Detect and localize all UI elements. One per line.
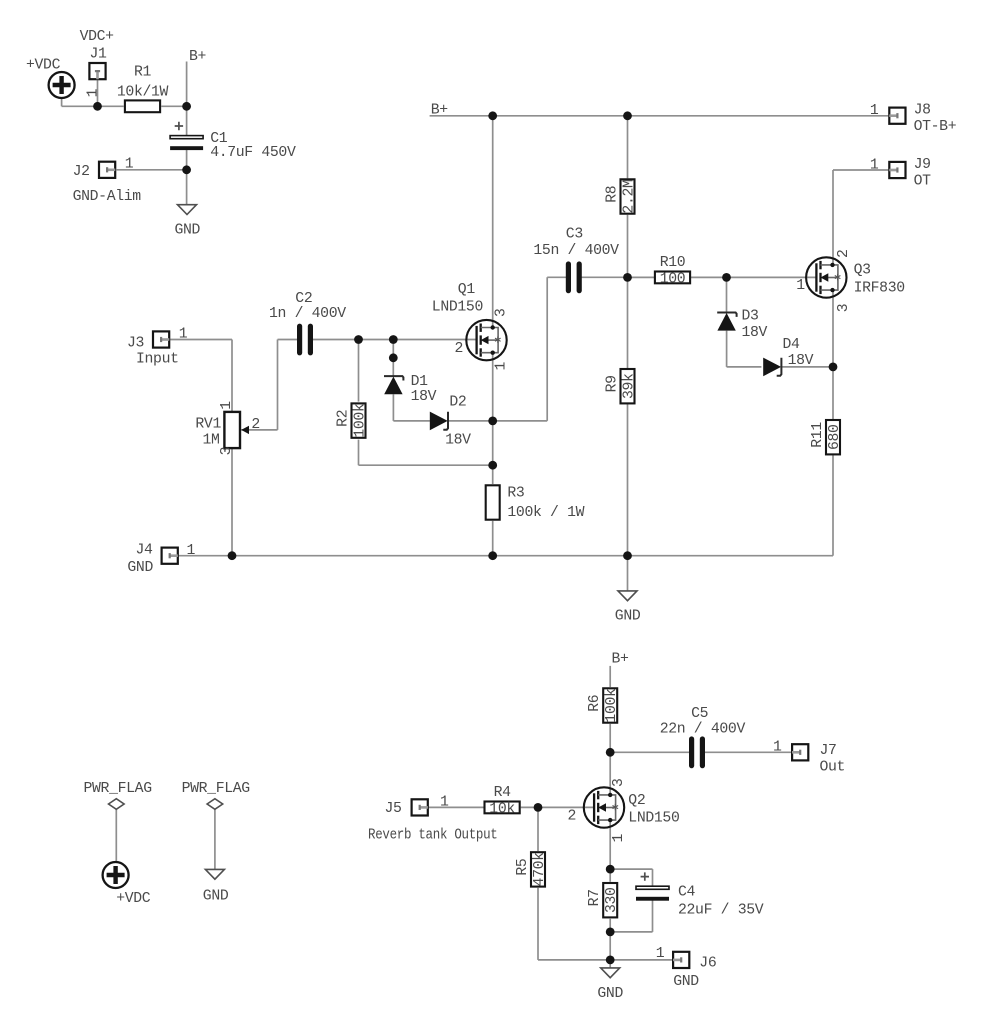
svg-text:1: 1 [125,157,134,173]
connector J2 [99,162,115,178]
svg-text:RV1: RV1 [195,416,221,432]
svg-text:Out: Out [820,760,846,776]
svg-text:OT-B+: OT-B+ [914,119,957,135]
svg-text:4.7uF 450V: 4.7uF 450V [210,145,296,161]
junction R3 / GND bus [488,551,497,560]
svg-text:+VDC: +VDC [116,891,151,907]
svg-text:OT: OT [914,173,932,189]
svg-text:22uF / 35V: 22uF / 35V [678,903,764,919]
junction D4 / Q3 source / R11 [829,363,838,372]
zener diode D4 [763,358,781,377]
wire R5 bottom down [537,888,539,960]
svg-text:C2: C2 [295,291,312,307]
wire RV1 pin3 to GND bus [231,448,233,556]
connector J1 [89,63,105,79]
svg-text:Q1: Q1 [458,282,476,298]
resistor R3 [486,485,500,519]
resistor R1 [125,100,160,112]
svg-text:B+: B+ [431,103,449,119]
wire D1 anode down [392,394,394,421]
wire C3 right to node [581,276,627,278]
junction B+ / R8 [623,111,632,120]
svg-text:470k: 470k [532,852,548,887]
svg-text:Input: Input [136,352,179,368]
svg-text:D1: D1 [411,374,429,390]
wire B+ label stub [186,62,188,107]
wire corner to RV1 pin1 [231,340,233,413]
svg-text:3: 3 [219,447,235,456]
zener diode D3 [717,313,736,331]
connector J9 [889,162,905,178]
wire Q2 source to node [609,820,611,869]
wire C1 bottom to node [186,150,188,170]
wire to C2 left [278,339,298,341]
wire node to Q1 gate [393,339,477,341]
svg-text:15n / 400V: 15n / 400V [533,243,619,259]
svg-text:1: 1 [440,795,449,811]
junction R7 / C4 bottom [606,928,615,937]
svg-text:18V: 18V [445,433,471,449]
svg-text:3: 3 [611,778,627,787]
svg-text:1: 1 [219,401,235,410]
svg-text:1: 1 [493,362,509,371]
svg-text:100k: 100k [604,688,620,723]
wire R11 bottom down [832,456,834,556]
junction D1 branch [389,353,398,362]
connector J3 [153,331,169,347]
transistor Q1 LND150 [466,320,506,360]
svg-text:100k: 100k [352,403,368,438]
wire J2 to node [117,169,187,171]
svg-text:GND: GND [127,560,153,576]
potentiometer RV1 [224,412,249,448]
svg-text:1: 1 [773,740,782,756]
connector J6 [673,952,689,968]
power symbol +VDC [49,72,75,98]
wire J5 to R4 left [429,806,484,808]
capacitor C3 [568,264,579,291]
zener diode D1 [384,376,403,394]
resistor R4 [485,802,520,814]
svg-text:1: 1 [656,946,665,962]
resistor R10 [655,272,690,284]
svg-text:2: 2 [251,417,260,433]
svg-text:IRF830: IRF830 [854,281,905,297]
svg-text:1: 1 [187,543,196,559]
wire node down to D1 cathode [392,340,394,377]
svg-text:1: 1 [179,327,188,343]
wire node right to corner [493,420,548,422]
transistor Q3 IRF830 [806,257,846,297]
svg-text:1n / 400V: 1n / 400V [269,306,346,322]
svg-text:330: 330 [604,887,620,913]
power flag diamond 2 [207,799,223,810]
wire B+ bus to J8 [430,115,889,117]
power symbol GND pwr-flag [205,869,224,879]
power flag diamond 1 [109,799,125,810]
svg-text:J8: J8 [914,102,931,118]
svg-text:Reverb tank Output: Reverb tank Output [368,828,498,844]
junction R8 / R9 / C3 / R10 [623,273,632,282]
wire node to R5 top [537,807,539,851]
svg-text:R1: R1 [134,65,152,81]
svg-text:GND: GND [597,986,623,1002]
svg-text:GND-Alim: GND-Alim [73,189,142,205]
wire C4 to node [610,931,652,933]
wire +VDC horizontal [62,105,98,107]
svg-text:GND: GND [175,223,201,239]
svg-text:D2: D2 [449,395,466,411]
junction R4 / R5 / Q2 gate [534,803,543,812]
svg-text:680: 680 [827,424,843,450]
wire node to node [492,421,494,465]
svg-text:B+: B+ [612,652,630,668]
wire D1 to D2 anode [393,420,430,422]
junction B+ / Q1 drain [488,111,497,120]
svg-text:R3: R3 [507,485,524,501]
junction R10 / D3 / Q3 gate [722,273,731,282]
wire R1 right to node B+ [161,105,186,107]
wire R2 to node below Q1 [359,464,493,466]
junction Q2 source / R7 / C4 [606,865,615,874]
resistor R5 [531,852,545,886]
svg-text:J1: J1 [90,47,108,63]
wire R7 bottom to node [609,919,611,932]
svg-text:GND: GND [673,974,699,990]
svg-text:PWR_FLAG: PWR_FLAG [182,781,250,797]
wire D4 cathode to node [781,366,833,368]
wire GND node to J6 [610,959,672,961]
wire node to D3 cathode [726,277,728,312]
svg-text:D3: D3 [742,309,759,325]
wire to C3 left [547,276,566,278]
svg-text:10k: 10k [489,801,515,817]
junction R2 / R3 [488,461,497,470]
junction D2 / Q1 source [488,417,497,426]
resistor R8 [621,179,635,213]
svg-text:2: 2 [568,809,577,825]
svg-text:LND150: LND150 [628,811,679,827]
connector J7 [792,744,808,760]
wire R2 bottom down [358,440,360,466]
wire B+ to Q1 drain [492,116,494,328]
capacitor C2 [300,326,311,353]
svg-text:R9: R9 [604,375,620,392]
capacitor C5 [692,739,703,766]
svg-text:2: 2 [836,249,852,258]
svg-text:1: 1 [611,834,627,843]
svg-text:J5: J5 [385,801,402,817]
wire R10 right to node [691,276,727,278]
wire node to Q3 gate [727,276,817,278]
svg-text:GND: GND [615,608,641,624]
wire R8 bottom to node [627,215,629,278]
wire node to GND node [609,932,611,960]
wire PWR_FLAG to +VDC [115,809,117,862]
junction RV1 / GND bus [228,551,237,560]
wire GND bus to GND symbol [627,556,629,591]
wire node to R3 top [492,465,494,484]
wire corner to C4 top [652,869,654,886]
resistor R11 [826,420,840,454]
svg-text:J6: J6 [699,956,716,972]
wire node to Q2 drain [609,752,611,795]
svg-text:10k/1W: 10k/1W [117,85,169,101]
wire Q1 source down [492,353,494,421]
svg-text:2.2M: 2.2M [621,179,637,213]
svg-text:100k / 1W: 100k / 1W [507,505,584,521]
svg-text:18V: 18V [788,353,814,369]
svg-text:C5: C5 [691,706,708,722]
svg-text:R10: R10 [660,255,686,271]
wire C4 bottom down [652,901,654,932]
wire GND bus [179,555,628,557]
wire B+ to R8 top [627,116,629,179]
wire J9 down to Q3 drain [832,170,834,265]
svg-text:J9: J9 [914,157,931,173]
wire node to R7 top [609,869,611,882]
wire D3 to D4 anode [727,366,762,368]
wire J1 pin 1 down [97,80,99,106]
transistor Q2 LND150 [584,787,624,827]
wire node to R1 left [98,105,124,107]
wire B+ to R6 top [609,666,611,687]
svg-text:J3: J3 [127,335,144,351]
svg-text:VDC+: VDC+ [80,29,115,45]
junction gate net / D1 [389,335,398,344]
svg-text:GND: GND [203,888,229,904]
capacitor C4 [636,872,669,900]
wire D3 anode down [726,331,728,367]
svg-text:J7: J7 [820,743,837,759]
wire wiper up [277,340,279,430]
wire R9 bottom to GND bus [627,404,629,556]
wire R5 to GND node [538,959,610,961]
svg-text:1: 1 [870,103,879,119]
power symbol +VDC bottom [103,862,129,888]
junction R9 / GND bus [623,551,632,560]
svg-text:D4: D4 [783,337,801,353]
zener diode D2 [430,412,448,431]
svg-text:18V: 18V [742,325,768,341]
wire R11 to GND bus [628,555,834,557]
resistor R7 [603,883,617,917]
svg-text:+VDC: +VDC [26,58,61,74]
svg-text:1: 1 [86,88,102,97]
capacitor C1 [170,122,203,150]
junction +VDC / J1 / R1 [93,102,102,111]
svg-text:PWR_FLAG: PWR_FLAG [84,781,152,797]
wire +VDC to node [61,98,63,107]
wire R6 bottom to node [609,724,611,752]
resistor R2 [352,403,366,437]
svg-text:3: 3 [836,304,852,313]
junction R6 / C5 / Q2 drain [606,748,615,757]
svg-text:18V: 18V [411,389,437,405]
wire Q3 source to R11 top [832,290,834,419]
wire node to R9 top [627,277,629,368]
svg-text:1: 1 [796,278,805,294]
wire corner up to C3 [546,277,548,421]
svg-text:3: 3 [493,308,509,317]
wire R4 right to node [521,806,538,808]
svg-text:C4: C4 [678,885,696,901]
power symbol GND middle [618,591,637,601]
svg-text:22n / 400V: 22n / 400V [660,722,746,738]
svg-text:1M: 1M [202,432,219,448]
wire J3 to corner [170,339,232,341]
wire C5 right to J7 [705,751,792,753]
junction GND node bottom [606,956,615,965]
svg-text:39k: 39k [621,373,637,399]
power symbol GND top-left [178,205,197,215]
svg-text:R11: R11 [810,422,826,448]
wire node to C5 left [610,751,689,753]
svg-text:C3: C3 [566,227,583,243]
svg-text:R6: R6 [587,695,603,712]
svg-text:R4: R4 [494,785,512,801]
wire RV1 wiper right [241,429,277,431]
wire node to C1 top [186,106,188,135]
resistor R6 [603,688,617,722]
svg-text:J2: J2 [73,164,90,180]
svg-text:1: 1 [870,157,879,173]
wire D2 cathode to node [448,420,493,422]
connector J5 [412,799,428,815]
svg-text:LND150: LND150 [432,300,483,316]
wire node to C4 corner [610,868,652,870]
wire node to Q2 gate [538,806,594,808]
wire PWR_FLAG to GND [214,809,216,869]
power symbol GND bottom [601,968,620,978]
svg-text:R7: R7 [587,889,603,906]
connector J8 [889,108,905,124]
svg-text:R2: R2 [335,410,351,427]
wire C2 right to node [313,339,359,341]
resistor R9 [621,369,635,403]
svg-text:B+: B+ [189,49,207,65]
svg-text:R5: R5 [515,859,531,876]
svg-text:R8: R8 [604,186,620,203]
svg-text:Q3: Q3 [854,263,871,279]
wire node to GND symbol [186,170,188,205]
wire Q3 drain to J9 [833,169,888,171]
svg-text:2: 2 [455,341,464,357]
connector J4 [162,548,178,564]
wire node to R2 top [358,340,360,402]
svg-text:Q2: Q2 [628,793,645,809]
svg-text:J4: J4 [136,543,154,559]
wire node to node D1 [359,339,394,341]
wire node to R10 left [628,276,655,278]
svg-text:100: 100 [660,271,686,287]
junction C2 / R2 / gate net [354,335,363,344]
wire R3 bottom to GND bus [492,521,494,556]
wire GND node to GND symbol [609,960,611,968]
junction J2 / C1 / GND [182,165,191,174]
junction R1 / B+ / C1 [182,102,191,111]
